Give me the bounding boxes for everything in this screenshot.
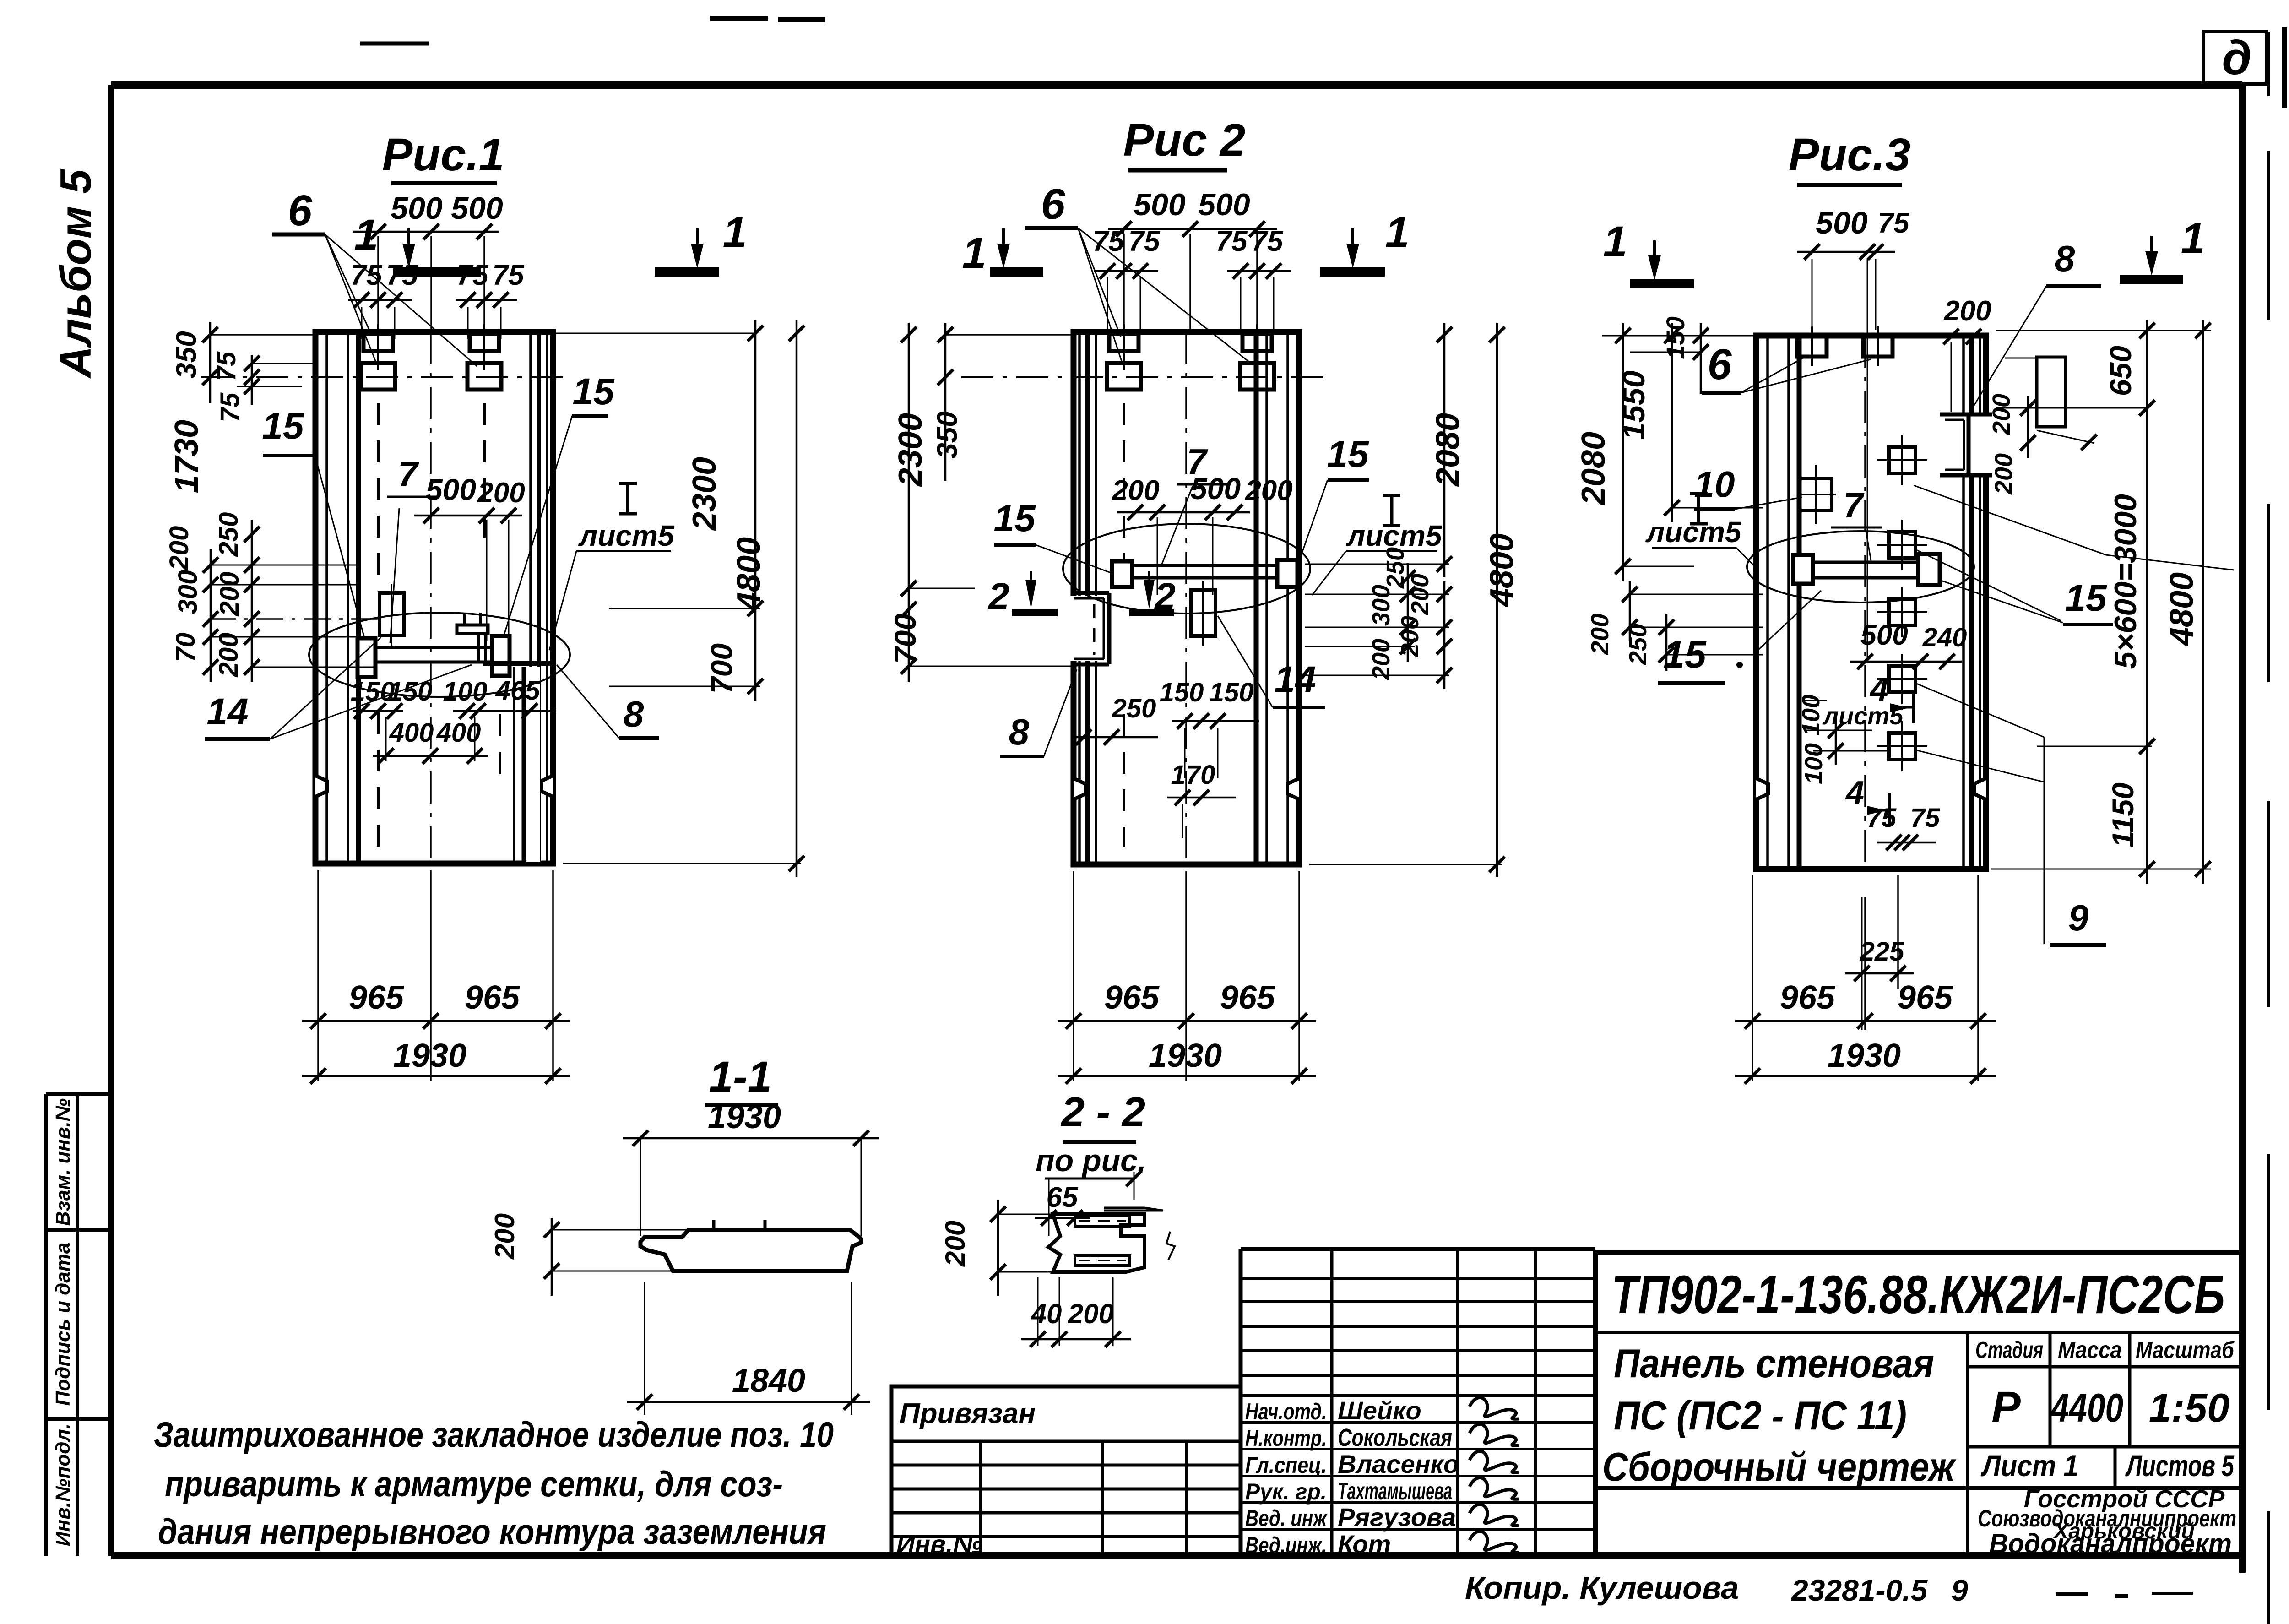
svg-text:75: 75 [386, 260, 418, 291]
svg-text:4: 4 [1845, 775, 1864, 811]
Рис.3 dim 150 left [1602, 316, 1756, 394]
Рис.1 dim 75 75 left squares [348, 260, 418, 339]
Рис.3 position label 15 with dot [1658, 633, 1743, 683]
svg-text:6: 6 [288, 186, 313, 235]
svg-text:500: 500 [391, 191, 443, 226]
signature table row 6 [1245, 1530, 1519, 1559]
svg-text:1: 1 [1603, 217, 1627, 266]
svg-text:15: 15 [262, 405, 304, 447]
Рис.2 reference symbol I лист5 [1312, 495, 1443, 595]
Рис.3 center axis line [1864, 336, 1866, 869]
svg-text:150: 150 [1661, 316, 1690, 359]
Рис.2 section marker 1 left [962, 228, 1043, 277]
section 2-2 dim 65 [1035, 1171, 1142, 1236]
Рис.3 position label 6 with leaders [1702, 340, 1871, 393]
Рис.2 axis dash-dot line 350 level [961, 376, 1323, 378]
svg-text:1: 1 [1385, 208, 1410, 257]
Рис.1 dim 400 400 bottom [373, 717, 488, 764]
Рис.1 door lintel edge [483, 663, 553, 863]
svg-text:1:50: 1:50 [2149, 1385, 2229, 1430]
svg-text:1: 1 [962, 229, 987, 277]
Рис.3 joint bar with end caps [1793, 554, 1940, 585]
svg-text:8: 8 [1009, 712, 1030, 752]
svg-text:Инв.№подл.: Инв.№подл. [52, 1423, 74, 1546]
Рис.1 embedded item 14 rect [380, 584, 404, 646]
Рис.2 dim 2300 left [892, 323, 975, 600]
svg-text:965: 965 [1220, 979, 1275, 1016]
Рис.1 position label 15 right with leader [504, 371, 615, 636]
svg-text:15: 15 [993, 498, 1036, 539]
Рис.3 dim 500 240 mid [1850, 619, 1967, 669]
Рис.3 dim 4800 right [1991, 320, 2211, 884]
Рис.3 left embedded square [1797, 465, 1836, 524]
svg-text:1: 1 [2181, 214, 2205, 263]
section 1-1 label [705, 1053, 778, 1105]
Рис.1 dim chain left mid [203, 520, 380, 682]
Рис.3 dim 200 250 left mid [1586, 581, 1763, 671]
svg-text:465: 465 [495, 676, 541, 706]
Рис.2 dim 75 75 left squares [1093, 226, 1161, 334]
svg-text:Листов 5: Листов 5 [2125, 1449, 2235, 1483]
svg-text:2300: 2300 [892, 413, 929, 487]
Рис.1 embedded squares right pair [467, 324, 501, 390]
svg-text:Сборочный чертеж: Сборочный чертеж [1602, 1444, 1957, 1489]
Рис.3 reference symbol I лист5 left [1645, 494, 1757, 569]
section 2-2 label [1060, 1089, 1145, 1142]
Рис.1 dim 75 75 right squares [456, 260, 525, 339]
Рис.3 dim 200 top right [1936, 295, 1991, 412]
Рис.1 reference symbol I лист5 [549, 483, 675, 650]
Рис.3 dim 650 right [2104, 320, 2155, 421]
Рис.3 position label 8 with leader [1969, 238, 2101, 413]
svg-text:Р: Р [1991, 1383, 2021, 1431]
svg-text:700: 700 [888, 614, 922, 664]
Рис.2 left edge joint notch [1067, 593, 1111, 664]
Рис.2 dim 4800 right [1309, 323, 1520, 877]
right scan edge artifact thick line [2284, 25, 2289, 1624]
svg-text:500: 500 [1198, 187, 1250, 222]
Рис.1 position label 14 with leaders [205, 637, 472, 739]
svg-text:965: 965 [349, 979, 404, 1016]
Рис.1 dim 150 150 bottom [351, 677, 433, 719]
svg-text:75: 75 [1910, 803, 1940, 833]
svg-text:75: 75 [351, 260, 383, 291]
svg-text:200: 200 [215, 572, 244, 617]
svg-text:2 - 2: 2 - 2 [1060, 1089, 1145, 1135]
svg-text:Кот: Кот [1338, 1530, 1391, 1559]
Рис.1 dashed rebar line right [484, 403, 500, 774]
svg-text:1930: 1930 [1828, 1037, 1901, 1074]
Рис.3 dim 5x600=3000 right [2037, 400, 2155, 760]
Рис.2 joint bar with end caps [1112, 560, 1297, 587]
Рис.3 dim 2080 left [1575, 323, 1694, 581]
Рис.2 dim 150 150 bottom [1160, 678, 1259, 778]
Рис.1 position label 6 with leaders [272, 186, 477, 366]
svg-text:д: д [2222, 31, 2252, 85]
Рис.1 dim 965 965 bottom [302, 979, 570, 1029]
section 2-2 dim 200 left [940, 1200, 1053, 1296]
Рис.2 dim 170 bottom [1167, 760, 1236, 838]
Рис.2 position label 15 left with leader [993, 498, 1112, 573]
Рис.2 section marker 2 inner [1129, 571, 1176, 617]
Рис.2 position label 6 with leaders [1025, 180, 1253, 365]
svg-text:Взам. инв.№: Взам. инв.№ [52, 1098, 74, 1226]
svg-text:75: 75 [1252, 226, 1284, 257]
Рис.3 dim 200 200 right rotated [1988, 394, 2147, 495]
svg-text:Панель стеновая: Панель стеновая [1614, 1341, 1934, 1386]
Рис.2 dim 965 965 bottom [1058, 979, 1316, 1029]
svg-text:965: 965 [465, 979, 520, 1016]
section 2-2 dim 40 200 bottom [1021, 1277, 1131, 1347]
svg-text:300: 300 [1367, 585, 1395, 626]
top margin dash marks [360, 18, 825, 43]
Рис.1 embedded squares left pair [361, 324, 395, 390]
svg-text:7: 7 [398, 454, 419, 494]
svg-text:Шейко: Шейко [1338, 1396, 1421, 1425]
svg-text:4800: 4800 [1484, 533, 1520, 608]
Рис.1 axis dash-dot line 350 level [201, 376, 570, 378]
Рис.2 embedded squares left pair [1107, 324, 1141, 390]
svg-text:Рис 2: Рис 2 [1123, 114, 1246, 166]
svg-text:150: 150 [388, 677, 433, 706]
Рис.1 dim 2300 700 right chain [522, 320, 763, 701]
svg-text:75: 75 [212, 351, 241, 381]
Рис.3 position label 15 right [2063, 577, 2113, 625]
Рис.2 dim 350 left [932, 323, 963, 481]
svg-text:1550: 1550 [1616, 370, 1651, 440]
Рис.1 position label 7 with leader [387, 454, 439, 643]
svg-text:75: 75 [1878, 207, 1910, 239]
svg-text:Копир. Кулешова: Копир. Кулешова [1465, 1570, 1739, 1606]
svg-text:965: 965 [1898, 979, 1953, 1016]
svg-text:4800: 4800 [2164, 572, 2200, 646]
Рис.2 position label 15 right with leader [1298, 434, 1369, 563]
Рис.3 embedded square column row1 [1877, 435, 1927, 485]
svg-text:9: 9 [2068, 897, 2089, 938]
svg-text:75: 75 [1867, 803, 1897, 833]
title block name lines [1595, 1332, 2242, 1556]
Рис.3 dim 100 100 rotated [1797, 695, 1891, 784]
Рис.3 лист5 small [1822, 702, 1904, 730]
Рис.2 position label 14 with leader [1218, 616, 1325, 707]
Рис.3 dim 1150 right [2106, 739, 2155, 884]
svg-text:приварить к арматуре сетки, дл: приварить к арматуре сетки, для соз- [165, 1464, 783, 1504]
Рис.2 dim 700 left [888, 600, 1076, 682]
svg-text:650: 650 [2104, 346, 2137, 396]
Рис.1 dim 100 465 bottom [443, 676, 556, 719]
svg-text:Заштрихованное закладное изд: Заштрихованное закладное изделие поз. 10 [154, 1414, 834, 1455]
svg-text:500: 500 [1860, 619, 1908, 651]
svg-text:Нач.отд.: Нач.отд. [1245, 1399, 1327, 1424]
svg-text:Вед. инж: Вед. инж [1245, 1505, 1328, 1531]
svg-text:1840: 1840 [732, 1363, 805, 1399]
svg-text:Лист 1: Лист 1 [1980, 1449, 2078, 1483]
svg-text:500: 500 [426, 473, 476, 506]
svg-text:225: 225 [1860, 937, 1905, 967]
svg-text:200: 200 [1245, 475, 1292, 506]
svg-text:200: 200 [1586, 614, 1614, 655]
Рис.1 position label 15 left with leader [262, 405, 366, 645]
svg-text:лист5: лист5 [1645, 516, 1742, 549]
Рис.2 right mid dim cluster [1305, 547, 1452, 689]
Рис.3 bottom edge notches [1756, 778, 1986, 799]
svg-text:лист5: лист5 [578, 519, 675, 552]
Рис.1 section marker 1 right [655, 208, 747, 272]
svg-text:2080: 2080 [1575, 432, 1612, 506]
attachment table text Привязан [900, 1398, 1036, 1429]
svg-text:350: 350 [932, 411, 963, 458]
Рис.2 position label 7 with leader [1162, 441, 1227, 564]
svg-text:1930: 1930 [708, 1099, 781, 1135]
Рис.3 position label 7 with leader [1831, 485, 1882, 561]
Рис.3 dim 225 bottom [1845, 897, 1914, 1030]
svg-text:2300: 2300 [686, 457, 723, 531]
title block frame [1595, 1252, 2242, 1556]
svg-text:Водоканалпроект: Водоканалпроект [1989, 1528, 2232, 1559]
title block values P 4400 1:50 [1968, 1383, 2242, 1447]
svg-text:Тахтамышева: Тахтамышева [1338, 1477, 1452, 1505]
svg-text:1930: 1930 [1149, 1037, 1222, 1074]
svg-text:75: 75 [1128, 226, 1161, 257]
section 1-1 panel cross-section slab [640, 1220, 861, 1271]
svg-text:965: 965 [1104, 979, 1160, 1016]
section 1-1 dim 200 left [489, 1213, 689, 1296]
Рис.1 dim 200 left b [215, 572, 244, 617]
right scan edge artifact thin dashed line [2267, 32, 2270, 1624]
svg-text:Привязан: Привязан [900, 1398, 1036, 1429]
svg-text:8: 8 [2055, 238, 2075, 279]
Рис.1 dim 200 left c [214, 633, 244, 678]
Рис.1 dim 500 200 mid [414, 473, 525, 641]
svg-text:200: 200 [940, 1221, 971, 1267]
svg-text:240: 240 [1922, 623, 1967, 652]
Рис.1 dim 350 left [171, 322, 218, 403]
section 2-2 joint cross-section [1048, 1208, 1175, 1272]
svg-text:500: 500 [1190, 472, 1241, 505]
svg-text:1: 1 [723, 208, 747, 257]
section 2-2 sublabel по рис. [1036, 1143, 1146, 1179]
svg-text:75: 75 [1093, 226, 1125, 257]
Рис.2 position label 8 with leader [1000, 669, 1077, 756]
Рис.2 dim 200 500 200 mid [1112, 472, 1292, 595]
svg-text:дания непрерывного контура заз: дания непрерывного контура заземления [158, 1511, 826, 1552]
svg-text:Власенко: Власенко [1338, 1450, 1459, 1478]
Рис.3 dim 500 75 top [1797, 206, 1910, 659]
svg-text:200: 200 [1990, 453, 2018, 495]
Рис.1 dim 4800 right [563, 320, 804, 877]
svg-text:150: 150 [1210, 678, 1254, 707]
svg-text:70: 70 [171, 633, 201, 663]
svg-text:2080: 2080 [1430, 413, 1466, 487]
svg-text:200: 200 [1943, 295, 1991, 327]
Рис.1 section marker 1 left [354, 211, 481, 272]
signature table row 2 [1245, 1424, 1519, 1451]
svg-text:Рис.1: Рис.1 [382, 129, 504, 180]
Рис.1 detail oval [309, 613, 570, 697]
svg-text:200: 200 [489, 1213, 520, 1260]
svg-text:300: 300 [173, 570, 203, 614]
svg-text:ТП902-1-136.88.КЖ2И-ПС2СБ: ТП902-1-136.88.КЖ2И-ПС2СБ [1611, 1265, 2225, 1325]
Рис.3 embedded square column row5 [1877, 721, 1927, 771]
svg-text:15: 15 [2065, 577, 2107, 619]
Рис.1 dim 70 left [171, 633, 201, 663]
Рис.1 dim 250 left [214, 512, 244, 557]
Рис.3 dim 965 965 bottom [1735, 979, 1996, 1029]
svg-text:15: 15 [1663, 633, 1707, 676]
Рис.2 dashed rebar line left [1123, 403, 1125, 847]
svg-text:1730: 1730 [168, 420, 205, 493]
svg-text:200: 200 [164, 526, 194, 571]
vertical label Альбом 5 [51, 168, 100, 379]
footer text 23281-05 9 [1790, 1573, 1968, 1607]
Рис.3 dim 1550 left [1616, 323, 1763, 522]
Рис.1 panel outline and edge ribs [315, 332, 553, 864]
left strip label Подпись и дата [52, 1243, 74, 1406]
svg-text:Масса: Масса [2058, 1337, 2122, 1363]
svg-text:170: 170 [1171, 760, 1215, 790]
Рис.2 dim 250 bottom [1071, 694, 1158, 745]
Рис.2 detail oval [1063, 524, 1310, 614]
svg-text:200: 200 [1112, 475, 1159, 506]
svg-text:Инв.№: Инв.№ [896, 1530, 982, 1559]
svg-text:1150: 1150 [2106, 782, 2140, 847]
Рис.1 ext line panel top left [210, 334, 315, 336]
svg-text:Н.контр.: Н.контр. [1245, 1425, 1327, 1451]
left strip label Взам.инв.№ [52, 1098, 74, 1226]
svg-text:75: 75 [215, 392, 245, 422]
svg-text:400: 400 [389, 718, 434, 748]
Рис.3 position label 10 with leader [1694, 464, 1802, 509]
svg-text:Гл.спец.: Гл.спец. [1245, 1452, 1327, 1478]
svg-text:15: 15 [572, 371, 615, 413]
svg-text:965: 965 [1780, 979, 1835, 1016]
Рис.2 center axis line [1185, 332, 1187, 864]
Рис.3 section marker 1 right [2120, 214, 2205, 279]
svg-text:350: 350 [171, 331, 202, 378]
svg-text:200: 200 [1396, 616, 1424, 657]
Рис.2 bottom extension lines [1074, 871, 1299, 1081]
note text line 1 [154, 1414, 834, 1455]
svg-text:ПС (ПС2 - ПС 11): ПС (ПС2 - ПС 11) [1614, 1393, 1907, 1438]
svg-text:150: 150 [1160, 678, 1204, 707]
Рис.2 section marker 2 left [987, 571, 1058, 617]
left strip box frame [46, 1094, 111, 1556]
svg-text:100: 100 [1800, 743, 1828, 784]
Рис.3 detail oval [1747, 531, 1974, 603]
signature table row 1 [1245, 1396, 1519, 1425]
Рис.3 top embedded squares [1797, 326, 1893, 366]
Рис.1 center axis line [430, 332, 432, 864]
left strip label Инв.№подл. [52, 1423, 74, 1546]
title block stadia massa masshtab header [1968, 1332, 2242, 1447]
svg-text:250: 250 [1112, 694, 1156, 723]
svg-text:500: 500 [1816, 206, 1868, 240]
Рис.1 figure title [382, 129, 504, 183]
title block organization [1978, 1485, 2236, 1559]
svg-text:1-1: 1-1 [709, 1053, 771, 1101]
svg-text:200: 200 [214, 633, 244, 678]
Рис.2 dashed rebar line right [1256, 403, 1258, 847]
svg-text:500: 500 [1134, 187, 1186, 222]
svg-text:14: 14 [206, 691, 248, 733]
svg-text:75: 75 [1216, 226, 1248, 257]
signature table row 3 [1245, 1450, 1519, 1478]
Рис.2 dim 1930 bottom [1058, 1037, 1316, 1084]
svg-text:250: 250 [214, 512, 244, 557]
footer text Копир Кулешова [1465, 1570, 1739, 1606]
Рис.1 dim 500 500 top [353, 191, 503, 333]
Рис.1 dim 1730 left [168, 420, 205, 493]
svg-text:200: 200 [1367, 639, 1395, 680]
Рис.3 embedded square column row3 [1877, 587, 1927, 637]
Рис.3 marker 4 lower [1845, 775, 1890, 824]
Рис.1 position label 8 with leader [557, 665, 659, 738]
Рис.2 figure title [1123, 114, 1246, 170]
title block sheet numbers [1980, 1447, 2235, 1488]
svg-text:6: 6 [1041, 180, 1066, 228]
svg-text:4800: 4800 [731, 537, 767, 611]
svg-text:40: 40 [1031, 1298, 1062, 1329]
Рис.3 embedded square column row4 [1877, 654, 1927, 704]
svg-text:75: 75 [493, 260, 525, 291]
Рис.2 bottom edge notches [1074, 778, 1299, 799]
svg-text:500: 500 [451, 191, 503, 226]
svg-text:Рук. гр.: Рук. гр. [1245, 1479, 1327, 1505]
section 1-1 dim 1840 [627, 1282, 870, 1415]
svg-text:23281-0.5: 23281-0.5 [1790, 1573, 1928, 1607]
svg-text:8: 8 [624, 694, 644, 734]
Рис.2 dim 500 500 top [1108, 187, 1277, 333]
svg-text:лист5: лист5 [1822, 702, 1904, 730]
Рис.3 section marker 1 left [1603, 217, 1694, 284]
svg-text:7: 7 [1843, 485, 1865, 525]
svg-text:100: 100 [443, 677, 488, 706]
Рис.3 embedded square column row2 [1877, 520, 1927, 570]
Рис.1 joint bar with end caps [358, 636, 510, 677]
svg-text:4400: 4400 [2050, 1385, 2123, 1430]
Рис.3 long leader lines to 15 and 9 [1914, 485, 2234, 944]
note text line 3 [158, 1511, 826, 1552]
svg-text:Стадия: Стадия [1975, 1337, 2043, 1363]
Рис.2 ext line panel top left [945, 334, 1074, 336]
Рис.3 figure title [1789, 129, 1911, 185]
svg-text:9: 9 [1951, 1573, 1968, 1607]
svg-text:5×600=3000: 5×600=3000 [2108, 494, 2143, 669]
footer smudge dashes [2056, 1593, 2193, 1596]
Рис.1 joint anchor plate [457, 613, 488, 663]
svg-text:Вед.инж.: Вед.инж. [1245, 1532, 1327, 1558]
Рис.1 bottom edge notches [315, 776, 553, 797]
svg-text:15: 15 [1327, 434, 1369, 475]
signature table row 4 [1245, 1477, 1519, 1505]
svg-text:2: 2 [987, 576, 1009, 617]
Рис.3 bottom extension lines [1752, 875, 1978, 1081]
svg-text:Масштаб: Масштаб [2136, 1337, 2235, 1363]
title block document number [1595, 1265, 2242, 1332]
Рис.2 embedded squares right pair [1240, 324, 1274, 390]
svg-text:по рис.: по рис. [1036, 1143, 1146, 1178]
svg-text:65: 65 [1047, 1182, 1079, 1213]
Рис.3 right edge step joint [1940, 414, 1992, 475]
Рис.3 element 8 side view rect [2005, 357, 2097, 450]
Рис.1 dim 300 left [173, 570, 203, 614]
Рис.3 dim 75 75 lower [1867, 803, 1940, 850]
note text line 2 [165, 1464, 783, 1504]
Рис.1 dim 75 75 rotated left [212, 351, 317, 422]
attachment table frame [891, 1386, 1241, 1556]
svg-text:10: 10 [1694, 464, 1735, 505]
Рис.2 section marker 1 right [1320, 208, 1409, 272]
